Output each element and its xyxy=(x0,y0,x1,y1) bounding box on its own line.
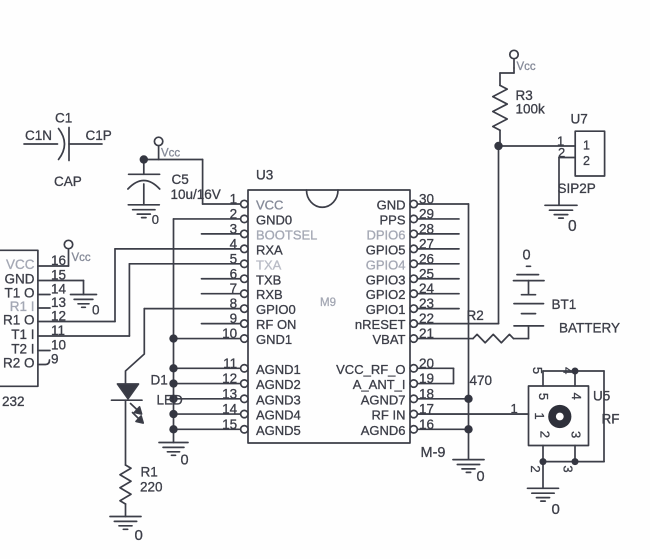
svg-text:D1: D1 xyxy=(151,373,168,388)
svg-text:VCC: VCC xyxy=(6,257,35,272)
svg-text:BT1: BT1 xyxy=(552,297,577,312)
svg-text:GND1: GND1 xyxy=(256,332,292,347)
svg-text:AGND1: AGND1 xyxy=(256,362,301,377)
svg-text:26: 26 xyxy=(419,251,434,266)
svg-text:U5: U5 xyxy=(593,389,610,404)
svg-text:21: 21 xyxy=(419,326,434,341)
svg-text:2: 2 xyxy=(583,154,590,168)
svg-text:12: 12 xyxy=(222,371,237,386)
svg-text:C1P: C1P xyxy=(86,128,112,143)
svg-text:22: 22 xyxy=(419,311,434,326)
svg-text:0: 0 xyxy=(477,469,485,485)
svg-text:25: 25 xyxy=(419,266,434,281)
svg-text:GPIO5: GPIO5 xyxy=(366,242,406,257)
svg-text:C5: C5 xyxy=(172,172,189,187)
svg-text:AGND5: AGND5 xyxy=(256,423,301,438)
svg-text:DPIO6: DPIO6 xyxy=(366,227,405,242)
svg-text:M-9: M-9 xyxy=(421,445,446,461)
svg-text:1: 1 xyxy=(230,192,238,207)
svg-text:T1 I: T1 I xyxy=(11,327,34,342)
svg-text:10: 10 xyxy=(51,338,66,353)
svg-text:M9: M9 xyxy=(320,297,336,309)
svg-text:17: 17 xyxy=(419,402,434,417)
svg-text:9: 9 xyxy=(51,352,59,367)
svg-text:GPIO2: GPIO2 xyxy=(366,287,406,302)
svg-text:GPIO4: GPIO4 xyxy=(366,257,406,272)
svg-text:R2: R2 xyxy=(467,308,484,323)
svg-text:0: 0 xyxy=(152,212,159,227)
svg-text:VBAT: VBAT xyxy=(373,332,406,347)
svg-text:R1 O: R1 O xyxy=(3,313,35,328)
svg-text:3: 3 xyxy=(561,465,576,472)
svg-text:RF IN: RF IN xyxy=(372,408,406,423)
svg-text:10: 10 xyxy=(222,326,237,341)
svg-text:3: 3 xyxy=(569,431,584,438)
svg-text:3: 3 xyxy=(230,221,238,236)
svg-text:AGND2: AGND2 xyxy=(256,377,301,392)
svg-text:1: 1 xyxy=(532,412,547,419)
svg-text:1: 1 xyxy=(583,139,590,153)
svg-text:2: 2 xyxy=(528,465,543,472)
svg-text:220: 220 xyxy=(140,480,163,495)
svg-text:1: 1 xyxy=(511,401,518,416)
svg-text:RXB: RXB xyxy=(256,287,283,302)
svg-text:8: 8 xyxy=(230,296,238,311)
svg-text:TXB: TXB xyxy=(256,272,281,287)
svg-text:30: 30 xyxy=(419,192,434,207)
svg-text:0: 0 xyxy=(523,248,531,264)
svg-text:C1: C1 xyxy=(55,111,72,126)
svg-text:BOOTSEL: BOOTSEL xyxy=(256,227,317,242)
svg-text:4: 4 xyxy=(561,367,576,374)
svg-text:Vcc: Vcc xyxy=(72,252,91,264)
svg-text:R2 O: R2 O xyxy=(3,356,35,371)
svg-text:C1N: C1N xyxy=(25,128,52,143)
svg-text:14: 14 xyxy=(222,402,238,417)
svg-text:2: 2 xyxy=(538,431,553,438)
svg-text:AGND7: AGND7 xyxy=(361,392,406,407)
svg-text:LED: LED xyxy=(157,393,184,408)
svg-text:0: 0 xyxy=(552,501,560,518)
svg-text:2: 2 xyxy=(558,145,565,160)
svg-text:BATTERY: BATTERY xyxy=(559,321,620,336)
svg-text:20: 20 xyxy=(419,356,434,371)
svg-text:7: 7 xyxy=(230,281,238,296)
svg-text:VCC: VCC xyxy=(256,198,283,213)
svg-text:19: 19 xyxy=(419,371,434,386)
svg-text:SIP2P: SIP2P xyxy=(558,181,596,196)
svg-text:232: 232 xyxy=(2,394,25,409)
svg-text:0: 0 xyxy=(568,218,577,235)
svg-text:T2 I: T2 I xyxy=(11,342,34,357)
svg-text:U7: U7 xyxy=(571,112,588,127)
svg-text:16: 16 xyxy=(419,417,434,432)
svg-text:13: 13 xyxy=(222,386,237,401)
svg-text:16: 16 xyxy=(51,253,66,268)
svg-text:15: 15 xyxy=(222,417,237,432)
svg-text:100k: 100k xyxy=(516,102,546,117)
svg-text:4: 4 xyxy=(569,393,584,400)
svg-text:470: 470 xyxy=(470,373,493,388)
svg-text:5: 5 xyxy=(536,393,551,400)
svg-text:6: 6 xyxy=(230,266,238,281)
svg-text:18: 18 xyxy=(419,386,434,401)
svg-text:AGND4: AGND4 xyxy=(256,408,301,423)
svg-text:A_ANT_I: A_ANT_I xyxy=(353,377,406,392)
svg-text:GND: GND xyxy=(5,272,35,287)
svg-text:12: 12 xyxy=(51,309,66,324)
svg-text:27: 27 xyxy=(419,236,434,251)
svg-text:29: 29 xyxy=(419,206,434,221)
svg-text:0: 0 xyxy=(135,527,143,544)
svg-text:0: 0 xyxy=(92,303,100,318)
svg-text:VCC_RF_O: VCC_RF_O xyxy=(336,362,405,377)
svg-text:TXA: TXA xyxy=(256,257,282,272)
svg-text:9: 9 xyxy=(230,311,238,326)
svg-text:GPIO1: GPIO1 xyxy=(366,302,406,317)
svg-text:GPIO0: GPIO0 xyxy=(256,302,296,317)
svg-text:28: 28 xyxy=(419,221,434,236)
svg-text:2: 2 xyxy=(230,206,238,221)
svg-text:11: 11 xyxy=(51,323,65,338)
svg-text:11: 11 xyxy=(223,356,237,371)
svg-text:10u/16V: 10u/16V xyxy=(171,187,221,202)
svg-text:RXA: RXA xyxy=(256,242,283,257)
svg-text:24: 24 xyxy=(419,281,435,296)
svg-text:GPIO3: GPIO3 xyxy=(366,272,406,287)
svg-text:Vcc: Vcc xyxy=(517,61,536,73)
svg-text:AGND6: AGND6 xyxy=(361,423,406,438)
svg-text:5: 5 xyxy=(530,367,545,374)
svg-text:PPS: PPS xyxy=(379,212,405,227)
svg-text:5: 5 xyxy=(230,251,238,266)
svg-text:GND: GND xyxy=(377,198,406,213)
svg-text:15: 15 xyxy=(51,268,66,283)
svg-text:23: 23 xyxy=(419,296,434,311)
svg-text:AGND3: AGND3 xyxy=(256,392,301,407)
svg-text:nRESET: nRESET xyxy=(355,317,406,332)
svg-text:RF ON: RF ON xyxy=(256,317,296,332)
svg-text:4: 4 xyxy=(230,236,238,251)
svg-text:CAP: CAP xyxy=(54,174,82,189)
svg-text:R1: R1 xyxy=(141,465,158,480)
svg-text:RF: RF xyxy=(602,412,620,427)
svg-text:U3: U3 xyxy=(256,168,273,183)
svg-text:GND0: GND0 xyxy=(256,212,292,227)
svg-text:Vcc: Vcc xyxy=(161,148,180,160)
svg-text:0: 0 xyxy=(181,453,189,469)
